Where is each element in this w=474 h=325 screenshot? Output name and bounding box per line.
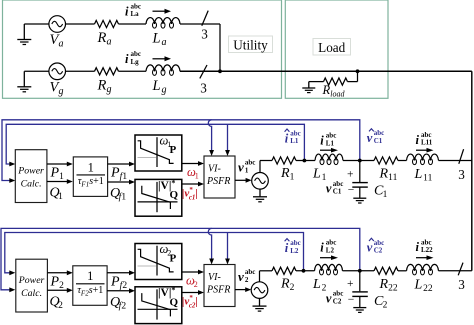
svg-text:3: 3 <box>458 167 465 182</box>
svg-text:2: 2 <box>58 301 63 311</box>
svg-text:PSFR: PSFR <box>206 176 230 187</box>
svg-text:L1: L1 <box>326 139 335 147</box>
svg-text:1: 1 <box>290 173 295 183</box>
svg-text:2: 2 <box>194 280 198 289</box>
svg-text:+: + <box>347 278 354 290</box>
svg-text:L: L <box>414 167 423 182</box>
svg-text:Q: Q <box>170 189 179 201</box>
svg-text:2: 2 <box>290 283 295 293</box>
svg-text:2: 2 <box>59 281 64 291</box>
svg-text:f2: f2 <box>120 280 128 291</box>
svg-text:i: i <box>320 134 324 148</box>
svg-text:L: L <box>152 31 161 47</box>
svg-text:P: P <box>170 144 177 156</box>
svg-text:C2: C2 <box>333 297 342 305</box>
svg-text:Lg: Lg <box>131 58 140 66</box>
svg-text:i: i <box>416 133 420 147</box>
svg-text:f2: f2 <box>119 301 127 312</box>
svg-text:C1: C1 <box>374 137 383 145</box>
svg-text:−: − <box>348 294 355 306</box>
svg-text:P: P <box>110 166 120 181</box>
svg-text:L1: L1 <box>290 137 299 145</box>
svg-text:P: P <box>110 275 120 290</box>
svg-text:v: v <box>367 131 373 145</box>
svg-text:3: 3 <box>201 27 208 42</box>
svg-text:P: P <box>170 252 177 264</box>
svg-text:g: g <box>58 86 63 97</box>
svg-text:1: 1 <box>245 166 249 174</box>
svg-text:R: R <box>280 276 290 291</box>
svg-text:|v*c2|: |v*c2| <box>182 294 198 310</box>
svg-text:L: L <box>312 277 321 292</box>
svg-text:Calc.: Calc. <box>21 179 42 190</box>
svg-text:3: 3 <box>200 81 207 96</box>
svg-text:a: a <box>58 39 63 50</box>
svg-text:g: g <box>106 84 111 95</box>
svg-text:L: L <box>152 78 161 94</box>
svg-text:a: a <box>161 37 166 48</box>
svg-text:R: R <box>379 167 389 182</box>
svg-text:1: 1 <box>195 172 199 181</box>
svg-text:i: i <box>125 52 129 66</box>
svg-text:i: i <box>125 4 129 18</box>
svg-text:L2: L2 <box>326 246 335 254</box>
svg-text:R: R <box>280 166 290 181</box>
svg-text:VI-: VI- <box>208 272 221 283</box>
svg-text:v: v <box>238 269 244 284</box>
svg-text:L2: L2 <box>290 247 299 255</box>
svg-text:R: R <box>97 30 107 46</box>
svg-text:−: − <box>348 184 355 196</box>
svg-text:P: P <box>50 166 60 181</box>
svg-text:1: 1 <box>383 190 388 200</box>
svg-text:L: L <box>414 277 423 292</box>
svg-text:22: 22 <box>388 283 398 293</box>
svg-text:i: i <box>416 240 420 254</box>
svg-text:22: 22 <box>423 284 433 294</box>
svg-text:1: 1 <box>88 160 94 174</box>
svg-text:1: 1 <box>87 269 93 283</box>
svg-text:f1: f1 <box>119 192 127 203</box>
svg-text:Utility: Utility <box>233 37 268 52</box>
svg-text:11: 11 <box>388 173 397 183</box>
svg-text:f1: f1 <box>120 171 128 182</box>
svg-text:g: g <box>161 84 166 95</box>
svg-text:Power: Power <box>18 275 45 286</box>
svg-text:R: R <box>97 77 107 93</box>
svg-text:i: i <box>285 131 289 145</box>
svg-text:1: 1 <box>59 172 64 182</box>
svg-text:i: i <box>320 241 324 255</box>
svg-text:Power: Power <box>17 166 44 177</box>
svg-text:VI-: VI- <box>208 164 221 175</box>
svg-text:P: P <box>50 275 60 290</box>
svg-text:PSFR: PSFR <box>206 285 230 296</box>
svg-text:1: 1 <box>58 192 63 202</box>
svg-text:v: v <box>238 160 244 175</box>
svg-text:R: R <box>322 83 331 97</box>
svg-text:3: 3 <box>458 277 465 292</box>
svg-text:La: La <box>131 10 140 18</box>
svg-text:v: v <box>367 241 373 255</box>
svg-text:v: v <box>326 292 332 306</box>
svg-text:load: load <box>330 90 345 99</box>
svg-text:+: + <box>347 169 354 181</box>
svg-text:v: v <box>326 182 332 196</box>
svg-text:|v*c1|: |v*c1| <box>182 186 198 202</box>
svg-text:Load: Load <box>318 40 346 55</box>
svg-text:Q: Q <box>170 297 179 309</box>
svg-text:C2: C2 <box>374 247 383 255</box>
svg-text:C1: C1 <box>333 188 342 196</box>
svg-text:L22: L22 <box>421 246 433 254</box>
svg-text:Calc.: Calc. <box>21 288 42 299</box>
svg-text:L11: L11 <box>421 139 433 147</box>
svg-text:2: 2 <box>245 276 249 284</box>
svg-text:a: a <box>106 37 111 48</box>
svg-text:11: 11 <box>423 174 432 184</box>
svg-text:2: 2 <box>383 300 388 310</box>
svg-text:i: i <box>285 241 289 255</box>
svg-text:L: L <box>312 167 321 182</box>
svg-text:R: R <box>379 277 389 292</box>
